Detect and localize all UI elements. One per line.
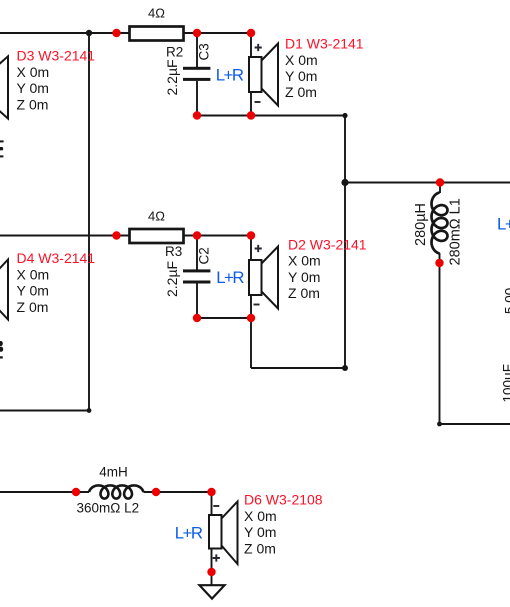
svg-text:280µH: 280µH bbox=[413, 203, 429, 246]
svg-text:L+R: L+R bbox=[216, 66, 244, 85]
svg-text:100µF: 100µF bbox=[501, 364, 510, 403]
svg-text:L+R: L+R bbox=[216, 268, 244, 287]
svg-text:C2: C2 bbox=[197, 247, 212, 264]
svg-text:Z 0m: Z 0m bbox=[244, 540, 276, 556]
svg-text:Y 0m: Y 0m bbox=[17, 80, 49, 96]
svg-text:D2 W3-2141: D2 W3-2141 bbox=[288, 237, 367, 253]
svg-text:R3: R3 bbox=[165, 244, 182, 259]
svg-text:D4 W3-2141: D4 W3-2141 bbox=[17, 250, 96, 266]
svg-text:4Ω: 4Ω bbox=[148, 209, 165, 224]
svg-text:5.00: 5.00 bbox=[503, 288, 510, 314]
svg-text:X 0m: X 0m bbox=[288, 253, 321, 269]
svg-text:X 0m: X 0m bbox=[244, 508, 277, 524]
svg-text:2.2µF: 2.2µF bbox=[164, 261, 180, 297]
svg-text:X 0m: X 0m bbox=[285, 52, 318, 68]
svg-text:Y 0m: Y 0m bbox=[244, 524, 276, 540]
svg-text:X 0m: X 0m bbox=[17, 64, 50, 80]
svg-text:Y 0m: Y 0m bbox=[288, 269, 320, 285]
svg-text:L+R: L+R bbox=[175, 524, 203, 543]
svg-text:Y 0m: Y 0m bbox=[285, 68, 317, 84]
svg-text:280mΩ L1: 280mΩ L1 bbox=[448, 198, 464, 265]
svg-text:360mΩ L2: 360mΩ L2 bbox=[77, 501, 140, 516]
svg-text:Z 0m: Z 0m bbox=[285, 84, 317, 100]
svg-text:Z 0m: Z 0m bbox=[288, 285, 320, 301]
svg-text:C3: C3 bbox=[197, 43, 212, 60]
svg-text:L+R: L+R bbox=[497, 215, 510, 234]
svg-text:2.2µF: 2.2µF bbox=[164, 59, 180, 95]
svg-text:D6 W3-2108: D6 W3-2108 bbox=[244, 492, 323, 508]
svg-text:R2: R2 bbox=[166, 45, 183, 60]
svg-text:Z 0m: Z 0m bbox=[17, 299, 49, 315]
svg-text:X 0m: X 0m bbox=[17, 266, 50, 282]
svg-text:4mH: 4mH bbox=[99, 465, 128, 480]
svg-text:Z 0m: Z 0m bbox=[17, 96, 49, 112]
svg-text:4Ω: 4Ω bbox=[148, 6, 165, 21]
svg-text:D1 W3-2141: D1 W3-2141 bbox=[285, 36, 364, 52]
svg-text:D3 W3-2141: D3 W3-2141 bbox=[17, 48, 96, 64]
svg-text:Y 0m: Y 0m bbox=[17, 283, 49, 299]
